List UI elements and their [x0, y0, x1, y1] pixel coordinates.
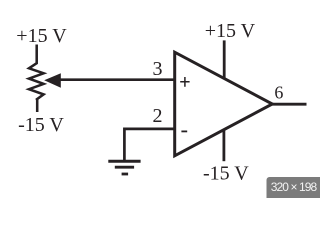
- svg-text:3: 3: [153, 58, 163, 80]
- op-amp noninverting + symbol: [180, 77, 189, 87]
- svg-text:-15 V: -15 V: [18, 114, 64, 136]
- size badge 320 x 198: [267, 177, 320, 201]
- output wire: [271, 103, 307, 106]
- svg-text:320 × 198: 320 × 198: [271, 180, 318, 194]
- wire pin 2 to ground: [124, 129, 175, 160]
- op-amp inverting - symbol: [181, 130, 187, 132]
- svg-text:+15 V: +15 V: [205, 20, 256, 42]
- svg-text:+15 V: +15 V: [16, 25, 67, 47]
- svg-text:-15 V: -15 V: [203, 162, 249, 184]
- ground: [108, 161, 140, 174]
- potentiometer: [29, 45, 44, 113]
- potentiometer wiper arrow: [44, 73, 61, 88]
- wire wiper to pin 3: [59, 78, 176, 81]
- svg-text:6: 6: [274, 83, 283, 103]
- op-amp: [175, 52, 273, 156]
- wire negative supply: [222, 130, 225, 161]
- svg-text:2: 2: [153, 105, 163, 127]
- wire positive supply: [223, 40, 226, 78]
